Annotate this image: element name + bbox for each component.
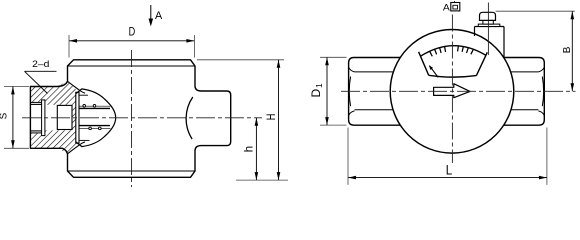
glass retainer lower edge — [79, 139, 90, 141]
svg-text:D: D — [129, 25, 136, 39]
label A-direction — [443, 1, 460, 14]
dial window — [419, 46, 488, 77]
dimension h — [242, 118, 259, 180]
bore thread line top outer — [30, 101, 41, 103]
centerline vertical left view — [131, 50, 133, 187]
dimension L — [348, 128, 547, 185]
svg-text:L: L — [446, 162, 453, 178]
svg-text:S: S — [0, 112, 9, 119]
top cap bottom edge — [68, 65, 196, 67]
rivet hole — [83, 105, 86, 108]
bottom cap top edge — [68, 170, 196, 172]
bore wall bottom — [30, 130, 41, 132]
washer in inlet bore — [42, 100, 45, 136]
dimension D1 — [309, 57, 347, 125]
hatch lower flange section — [30, 130, 75, 153]
bore wall top — [30, 103, 41, 105]
section boundary slope upper — [68, 81, 86, 93]
bracket bar lower — [80, 125, 111, 127]
chamber boundary arc — [76, 89, 116, 147]
glass retainer upper edge — [79, 94, 88, 96]
svg-text:H: H — [265, 114, 278, 121]
rivet hole — [99, 127, 102, 130]
view arrow A — [149, 5, 163, 27]
svg-text:2–d: 2–d — [32, 59, 49, 69]
bleed screw axis — [487, 3, 489, 56]
bleed screw neck — [483, 20, 493, 24]
bleed screw flange — [478, 24, 500, 26]
dimension B — [496, 11, 575, 91]
svg-text:h: h — [242, 146, 256, 152]
bracket edge upper — [80, 105, 111, 107]
section boundary slope lower — [68, 142, 86, 154]
dimension H — [197, 60, 288, 180]
rivet hole — [89, 127, 92, 130]
svg-text:B: B — [562, 46, 573, 53]
bore thread line bottom outer — [30, 132, 41, 134]
bracket bar upper — [80, 107, 111, 109]
sight glass block — [57, 105, 72, 129]
svg-text:A: A — [155, 10, 163, 22]
right hex fitting — [504, 58, 545, 126]
hatch upper flange section — [30, 81, 75, 130]
centerline horizontal right view — [341, 90, 576, 92]
centerline vertical right view — [451, 15, 453, 164]
dial scale ticks — [429, 45, 473, 56]
label 2-d with leader — [25, 59, 57, 94]
dimension S — [0, 86, 29, 148]
sight glass plate — [76, 92, 79, 143]
indicator body circle — [390, 30, 514, 154]
flow direction arrow — [434, 84, 470, 98]
svg-text:A: A — [443, 3, 451, 14]
bleed screw cap — [480, 12, 496, 20]
body outline — [30, 60, 230, 178]
chamber right arc — [186, 97, 193, 139]
dimension D — [69, 25, 194, 58]
centerline horizontal left view — [22, 117, 262, 119]
rivet hole — [93, 105, 96, 108]
left hex fitting — [349, 58, 401, 126]
dial needle — [429, 65, 438, 77]
bracket edge lower — [80, 127, 111, 129]
bleed screw boss — [475, 27, 505, 59]
